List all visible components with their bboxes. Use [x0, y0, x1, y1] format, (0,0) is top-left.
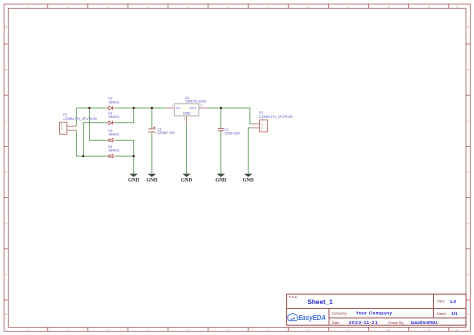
junction bottom rail AC2 — [82, 155, 84, 157]
svg-text:GND: GND — [128, 178, 140, 183]
svg-text:GND: GND — [181, 178, 193, 183]
svg-text:7805/TO-220S: 7805/TO-220S — [185, 100, 206, 104]
svg-text:1N4001: 1N4001 — [108, 101, 119, 105]
wire out rail down to C2 top — [220, 108, 222, 129]
ground GND5 — [243, 174, 255, 183]
diode D1 1N4001 — [106, 121, 116, 125]
svg-text:GND: GND — [146, 178, 158, 183]
connector P2 pin 2 — [252, 127, 260, 129]
wire bottom rail to GND drop — [133, 156, 135, 174]
junction plus rail C1 — [151, 107, 153, 109]
svg-text:Company:: Company: — [332, 312, 348, 316]
wire P2 pin2 to GND drop — [248, 128, 251, 174]
wire top rail to D2 anode — [76, 107, 106, 109]
connector P1 body — [59, 122, 67, 134]
svg-text:1N4001: 1N4001 — [108, 133, 119, 137]
junction plus rail D1/D2 — [133, 107, 135, 109]
svg-text:GND: GND — [183, 111, 191, 115]
wire D1 cathode up to plus rail — [116, 108, 134, 123]
wire U1 GND pin to GND — [186, 124, 188, 174]
capacitor C1 polarized — [148, 126, 155, 133]
svg-text:2200uF 20V: 2200uF 20V — [157, 131, 175, 135]
svg-text:Sheet:: Sheet: — [436, 312, 446, 316]
wire AC1 branch down to D3 cathode — [89, 108, 105, 140]
svg-text:GND: GND — [243, 178, 255, 183]
op-amp U1 7805 body — [174, 104, 199, 116]
svg-text:Drawn By:: Drawn By: — [388, 321, 404, 325]
svg-text:TITLE:: TITLE: — [289, 295, 298, 299]
wire P1 pin1 riser to top rail — [75, 108, 77, 126]
svg-text:REV:: REV: — [437, 300, 445, 304]
junction AC1 top rail — [88, 107, 90, 109]
svg-text:1N4001: 1N4001 — [108, 115, 119, 119]
connector P1 pin 2 — [67, 129, 77, 131]
ground GND4 — [215, 174, 227, 183]
svg-text:tanatton0531: tanatton0531 — [411, 320, 439, 325]
capacitor C2 — [218, 129, 224, 131]
wire D1 anode branch to bottom junction — [83, 123, 106, 156]
wire C1 bottom to GND — [151, 132, 153, 174]
wire D3 anode down to bottom rail — [116, 140, 134, 156]
svg-text:1.0: 1.0 — [450, 299, 457, 304]
svg-text:Date:: Date: — [332, 321, 340, 325]
diode D2 1N4001 — [106, 106, 116, 110]
svg-text:CONN-TH_2P-P5.00: CONN-TH_2P-P5.00 — [63, 117, 97, 121]
svg-text:OUT: OUT — [190, 106, 197, 110]
ground GND1 — [128, 174, 140, 183]
connector P2 body — [260, 120, 268, 132]
U1 pin 3 OUT stub — [199, 107, 207, 109]
svg-text:G: G — [467, 314, 469, 316]
ground GND2 — [146, 174, 158, 183]
diode D4 1N4001 — [106, 154, 116, 158]
wire U1 OUT to P2 pin1 — [207, 108, 252, 124]
svg-text:G: G — [5, 314, 7, 316]
svg-text:Your Company: Your Company — [356, 310, 393, 315]
connector P2 pin 1 — [252, 123, 260, 125]
svg-text:100nF 63V: 100nF 63V — [224, 131, 240, 135]
U1 pin 2 GND stub — [186, 116, 188, 124]
ground GND3 — [181, 174, 193, 183]
wire D4 anode to bottom junction — [116, 155, 134, 157]
svg-text:CONN-TH_2P-P5.00: CONN-TH_2P-P5.00 — [259, 115, 293, 119]
diode D3 1N4001 — [106, 138, 116, 142]
wire plus rail down to C1 top — [151, 108, 153, 129]
svg-text:1/1: 1/1 — [451, 311, 458, 316]
svg-text:1N4001: 1N4001 — [108, 149, 119, 153]
junction bottom rail D3/D4 — [133, 155, 135, 157]
wire P1 pin2 drop to bottom rail — [76, 130, 105, 156]
title block table — [287, 294, 466, 325]
svg-text:GND: GND — [215, 178, 227, 183]
wire C2 bottom to GND — [220, 131, 222, 174]
svg-text:IN: IN — [176, 106, 179, 110]
U1 pin 1 IN stub — [166, 107, 174, 109]
wire D2 cathode to U1 IN rail — [116, 107, 166, 109]
svg-text:EasyEDA: EasyEDA — [298, 315, 326, 322]
EasyEDA logo — [288, 313, 326, 322]
svg-text:Sheet_1: Sheet_1 — [308, 299, 334, 306]
connector P1 pin 1 — [67, 125, 76, 127]
junction out rail C2 — [220, 107, 222, 109]
svg-text:2023-11-21: 2023-11-21 — [349, 320, 378, 325]
